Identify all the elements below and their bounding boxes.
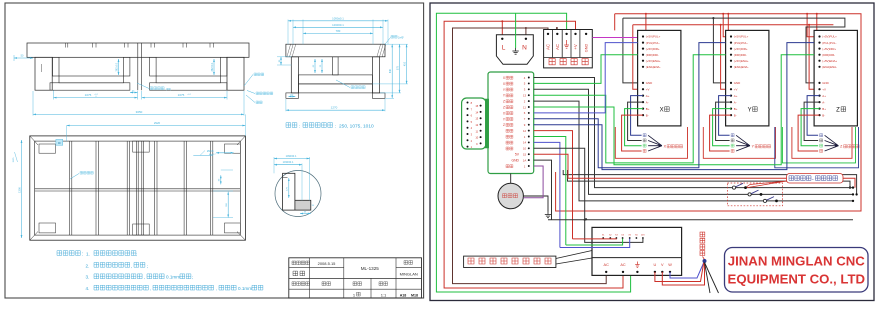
DB15 connector shell — [462, 98, 486, 149]
svg-text:AC: AC — [546, 44, 551, 50]
svg-text:(+5V)ENA+: (+5V)ENA+ — [734, 59, 749, 63]
svg-text:(+5V)DIR+: (+5V)DIR+ — [734, 47, 748, 51]
side view legs — [291, 57, 298, 93]
interface rows — [528, 77, 530, 79]
top view center gussets — [133, 141, 150, 152]
svg-text:Z: Z — [503, 123, 505, 127]
svg-text:362±0.1: 362±0.1 — [211, 62, 214, 72]
svg-text:(+5V)PUL+: (+5V)PUL+ — [734, 35, 749, 39]
driver Z motor wires — [807, 96, 819, 136]
bus black top — [623, 18, 845, 83]
wire 5V red bus — [534, 154, 855, 187]
wire magenta PUL — [592, 37, 637, 39]
wire Y dir green — [534, 55, 726, 163]
svg-text:5V: 5V — [515, 153, 520, 157]
side view small dim 110 — [288, 96, 295, 98]
svg-text:1270: 1270 — [331, 106, 338, 110]
svg-text:GND: GND — [511, 159, 519, 163]
svg-text:,: , — [150, 286, 151, 291]
bus red +5V top — [556, 14, 861, 211]
svg-text::: : — [335, 124, 336, 129]
limit switch line Y — [534, 89, 853, 194]
wire X pulse blue — [534, 43, 638, 113]
svg-text:3050: 3050 — [136, 110, 143, 114]
spindle motor wires — [670, 263, 704, 279]
driver box Y — [726, 30, 769, 126]
left sheet border — [5, 3, 424, 298]
svg-text:A-: A- — [646, 100, 649, 104]
svg-text:1030±0.1: 1030±0.1 — [332, 23, 344, 27]
svg-text:0.1mm: 0.1mm — [238, 286, 252, 291]
svg-text:1A: 1A — [523, 158, 527, 162]
svg-text:2.: 2. — [86, 263, 90, 268]
wire dark branch to AC2 — [556, 28, 558, 34]
mechanical switch label — [787, 174, 844, 184]
svg-text:GND: GND — [646, 81, 652, 85]
svg-text:410: 410 — [403, 61, 406, 66]
svg-text:Max17: Max17 — [209, 154, 216, 156]
svg-text:13: 13 — [523, 94, 527, 98]
svg-text:MINGLAN: MINGLAN — [400, 271, 418, 276]
svg-text:,: , — [216, 286, 217, 291]
svg-text:L: L — [502, 45, 506, 52]
switch S1 — [732, 186, 735, 189]
svg-text:(DIR)DIR-: (DIR)DIR- — [734, 53, 747, 57]
inverter bottom terminal dots — [605, 271, 607, 273]
svg-text:(+5V)DIR+: (+5V)DIR+ — [646, 47, 660, 51]
svg-text:1090±0.1: 1090±0.1 — [332, 16, 344, 20]
svg-text:(ENA)ENA-: (ENA)ENA- — [646, 65, 661, 69]
svg-text:10: 10 — [523, 147, 527, 151]
front view bay rails — [59, 76, 123, 83]
top view outer frame — [30, 136, 246, 240]
top view left dim — [21, 140, 23, 238]
side view mid rail — [299, 75, 373, 84]
svg-text:A-: A- — [734, 100, 737, 104]
side view bottom dim 1270 — [285, 99, 287, 111]
svg-text:A+: A+ — [822, 94, 826, 98]
svg-text:1300: 1300 — [17, 187, 21, 193]
top view top dim 2920 — [67, 125, 246, 127]
svg-text:,: , — [144, 275, 145, 280]
svg-text:640: 640 — [389, 68, 392, 73]
side view interior dims — [314, 59, 316, 73]
loop navy Z fan — [775, 127, 859, 168]
svg-text:B-: B- — [734, 113, 737, 117]
front view vertical dim 362 right bay — [213, 59, 215, 75]
front view right wide leg — [227, 57, 244, 90]
loop red Y fan — [703, 127, 775, 158]
svg-text:1.: 1. — [86, 252, 90, 257]
wire Z dir green — [534, 55, 814, 165]
side view rail leader — [336, 80, 350, 88]
svg-text:(R2): (R2) — [166, 87, 171, 91]
svg-text:A-: A- — [822, 100, 825, 104]
driver Y motor wires — [719, 96, 731, 136]
detail circle L-part foot — [295, 200, 311, 210]
switch S2 — [748, 193, 751, 196]
svg-text:;: ; — [147, 263, 148, 268]
title block texts — [292, 261, 310, 265]
inverter top terminals — [602, 237, 604, 239]
svg-text:Ø10.5: Ø10.5 — [207, 150, 214, 153]
side view chamfer leader — [385, 38, 391, 45]
loop green Z fan — [782, 127, 855, 163]
svg-text:(+5V)DIR+: (+5V)DIR+ — [822, 47, 836, 51]
svg-text:Z: Z — [503, 100, 505, 104]
top view inner frame — [35, 141, 241, 235]
svg-text:B+: B+ — [646, 107, 650, 111]
svg-text:;: ; — [136, 252, 137, 257]
wire dark branch to N — [525, 28, 527, 38]
svg-text:B+: B+ — [734, 107, 738, 111]
svg-text:(DIR)DIR-: (DIR)DIR- — [822, 53, 835, 57]
svg-text:(DIR)DIR-: (DIR)DIR- — [646, 53, 659, 57]
DB15 pins — [467, 102, 469, 104]
technical notes — [57, 251, 80, 256]
svg-text:1075: 1075 — [85, 93, 92, 97]
svg-text:780: 780 — [336, 29, 341, 33]
limit switch line Z — [534, 101, 853, 201]
svg-text:(PUL)PUL-: (PUL)PUL- — [734, 41, 748, 45]
svg-text:2008.5.15: 2008.5.15 — [318, 261, 337, 266]
transformer terminals — [547, 33, 549, 35]
wire red branch to L — [501, 21, 503, 38]
svg-text:1:1: 1:1 — [381, 292, 387, 297]
top view corner gussets — [39, 144, 56, 153]
detail circle dims — [274, 158, 310, 160]
svg-text:12: 12 — [523, 129, 527, 133]
svg-text:14: 14 — [523, 141, 527, 145]
top view right small dims — [220, 175, 222, 184]
svg-text:15: 15 — [523, 153, 527, 157]
driver Y motor arrow fan — [736, 135, 750, 145]
svg-text:U: U — [654, 263, 657, 267]
svg-text:B-: B- — [822, 113, 825, 117]
svg-text:AC: AC — [620, 263, 626, 267]
front view overall dim 3050 — [32, 91, 34, 116]
svg-text:A+: A+ — [734, 94, 738, 98]
svg-text:Y: Y — [748, 108, 752, 114]
front view dim 1075 left — [53, 91, 55, 100]
front view center slot — [137, 43, 139, 90]
transformer name text — [549, 59, 588, 65]
svg-text:1075: 1075 — [178, 93, 185, 97]
svg-text:AC: AC — [555, 44, 560, 50]
svg-text:362±0.1: 362±0.1 — [115, 62, 118, 72]
wire black long A — [563, 170, 856, 194]
wire tool purple — [523, 166, 543, 198]
side view lower beam — [299, 84, 373, 93]
mechanical switch dashed box — [727, 183, 782, 206]
interface board box — [488, 72, 534, 174]
front view t-slot ticks — [64, 43, 66, 48]
mechanical switch leader — [745, 181, 787, 188]
svg-text:GND: GND — [734, 81, 740, 85]
top view middle rail — [35, 188, 241, 190]
svg-text:+0.2: +0.2 — [187, 94, 191, 96]
svg-text:V: V — [661, 263, 664, 267]
wire red mains loop — [444, 21, 623, 288]
svg-text:1090±0.1: 1090±0.1 — [286, 154, 297, 158]
svg-text:AC: AC — [604, 263, 610, 267]
svg-text:GND: GND — [822, 81, 828, 85]
svg-text:+V: +V — [646, 87, 650, 91]
driver Z motor arrow fan — [825, 135, 839, 145]
top view weld leader — [70, 174, 79, 179]
switch S3 — [763, 199, 766, 202]
svg-text:3.: 3. — [86, 275, 90, 280]
svg-text:;: ; — [192, 275, 193, 280]
svg-text:(ENA)ENA-: (ENA)ENA- — [822, 65, 837, 69]
driver box Z — [814, 30, 857, 126]
front view small dim 40 — [130, 92, 138, 94]
tool setter circle — [510, 174, 512, 184]
svg-text:ML-1325: ML-1325 — [361, 266, 380, 271]
wire common black down — [534, 148, 585, 220]
svg-text:0.1mm: 0.1mm — [166, 275, 180, 280]
detail circle L-part vertical plate — [283, 173, 295, 210]
wire black long bottom — [548, 219, 853, 221]
svg-text:(+5V)PUL+: (+5V)PUL+ — [822, 35, 837, 39]
svg-text:+V: +V — [822, 87, 826, 91]
power entry ground symbol — [515, 13, 517, 48]
wire spindle blue to inverter — [534, 142, 560, 247]
svg-text:(+5V)PUL+: (+5V)PUL+ — [646, 35, 661, 39]
svg-text:GND: GND — [585, 44, 589, 53]
wire spindle red to inverter — [534, 131, 573, 239]
side view center post — [333, 57, 338, 75]
top view corner chamfers — [30, 136, 38, 145]
side view left small dims — [280, 57, 282, 65]
svg-text:11: 11 — [523, 105, 526, 109]
front view narrow legs — [53, 57, 60, 76]
svg-text:0: 0 — [96, 96, 97, 98]
side view right dims — [391, 44, 393, 98]
svg-text:B+: B+ — [822, 107, 826, 111]
front view tabletop bar — [27, 43, 249, 57]
svg-text:Z: Z — [503, 106, 505, 110]
svg-text:+V: +V — [573, 44, 578, 49]
inverter internal feeds — [585, 220, 643, 243]
bus red drops — [645, 14, 647, 37]
svg-text:JINAN MINGLAN CNC: JINAN MINGLAN CNC — [728, 254, 865, 269]
svg-text:1525: 1525 — [13, 157, 15, 163]
top view center double beam — [135, 141, 137, 235]
wire dark mains loop — [453, 28, 607, 284]
bus red second — [633, 24, 834, 26]
top view hole dim — [193, 154, 213, 156]
power entry box L N — [496, 35, 533, 65]
svg-text:M18: M18 — [411, 294, 418, 298]
svg-text:575: 575 — [396, 65, 399, 70]
front view left small dim — [14, 57, 33, 59]
wire Y pulse navy — [534, 43, 726, 168]
svg-text:+V: +V — [734, 87, 738, 91]
svg-text:(PUL)PUL-: (PUL)PUL- — [646, 41, 660, 45]
svg-text:W: W — [668, 263, 672, 267]
svg-text::: : — [299, 124, 300, 129]
driver box X — [638, 30, 681, 126]
transformer power box — [544, 30, 593, 68]
svg-text:Z: Z — [836, 108, 840, 114]
front view left wide leg — [35, 57, 52, 90]
svg-text:24V: 24V — [641, 234, 645, 236]
wire X dir green — [534, 55, 638, 84]
svg-text:,: , — [131, 263, 132, 268]
wire Z pulse navy — [534, 43, 814, 170]
title block table — [289, 258, 422, 298]
inverter note leaders — [556, 251, 592, 259]
svg-text:N: N — [522, 45, 527, 52]
top view vertical dividers — [69, 141, 71, 235]
wire green mains loop — [436, 13, 637, 292]
company name box — [725, 248, 869, 293]
spindle motor node — [703, 257, 705, 260]
wire spindle green to inverter — [534, 137, 566, 246]
attention note line — [286, 123, 297, 128]
svg-text:X: X — [660, 108, 664, 114]
svg-text:(+5V)ENA+: (+5V)ENA+ — [646, 59, 661, 63]
svg-text:2920: 2920 — [154, 121, 161, 125]
svg-text:(PUL)PUL-: (PUL)PUL- — [822, 41, 836, 45]
right panel border — [430, 3, 874, 301]
wire GND black down — [534, 160, 552, 220]
driver X motor arrow fan — [648, 135, 662, 145]
side view feet — [286, 93, 299, 98]
spindle motor legs — [705, 263, 711, 294]
tool setter ground wire — [523, 196, 548, 212]
front view base beams — [50, 83, 130, 90]
detail circle — [275, 171, 321, 217]
inverter box — [592, 227, 682, 275]
svg-text:250, 1075, 1010: 250, 1075, 1010 — [339, 124, 374, 130]
detail callout leaders — [244, 75, 253, 87]
svg-text:A+: A+ — [646, 94, 650, 98]
driver X motor wires — [631, 96, 643, 136]
top view cyan tag — [56, 139, 63, 145]
side view tabletop — [286, 44, 385, 57]
front view dim 1075 right — [141, 91, 143, 100]
svg-text:A18: A18 — [400, 294, 407, 298]
loop red X fan — [615, 127, 687, 158]
svg-text:(ENA)ENA-: (ENA)ENA- — [734, 65, 749, 69]
front view leader sharp-edge note — [137, 83, 149, 89]
svg-text::: : — [82, 252, 83, 258]
side view top dims — [288, 20, 388, 22]
DB15 to board link — [485, 99, 488, 148]
loop red Z fan — [792, 127, 852, 158]
spindle motor label — [700, 232, 705, 255]
limit switch line X — [534, 78, 853, 188]
svg-text:(+5V)ENA+: (+5V)ENA+ — [822, 59, 837, 63]
svg-text:4.: 4. — [86, 286, 90, 291]
inverter note label box — [464, 256, 556, 267]
svg-text:1030±0.1: 1030±0.1 — [283, 160, 294, 164]
svg-text:EQUIPMENT CO., LTD: EQUIPMENT CO., LTD — [728, 272, 866, 287]
svg-text:B-: B- — [646, 113, 649, 117]
wire black long B — [568, 170, 851, 188]
front view vertical dim 362 left bay — [118, 59, 120, 75]
svg-text:2x45°: 2x45° — [398, 37, 404, 40]
